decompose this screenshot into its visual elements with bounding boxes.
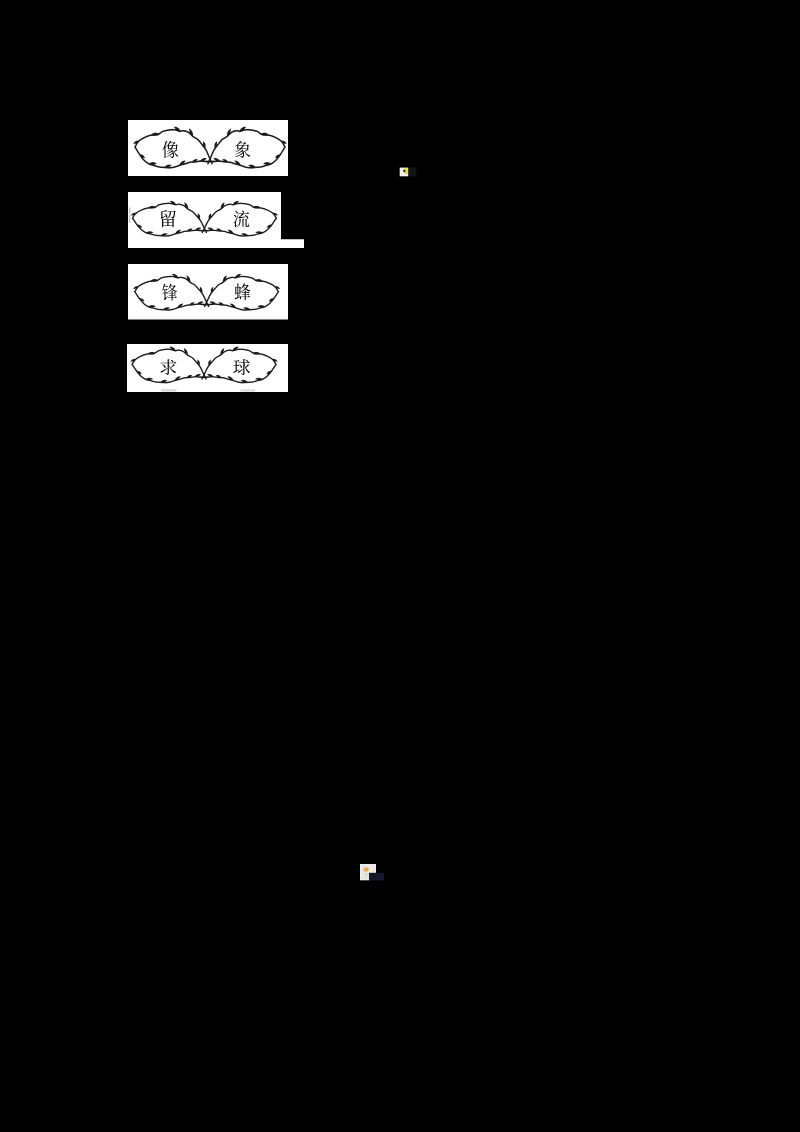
tiny inline icon: dark square bbox=[408, 168, 416, 177]
answer box 1 (white) bbox=[128, 120, 288, 176]
leaf pair 2 (two serrated leaves joined at centre V) bbox=[131, 201, 277, 236]
character 球 bbox=[233, 359, 250, 375]
character 蜂 bbox=[235, 283, 251, 300]
tiny inline icon: white square with yellow ball bbox=[400, 168, 409, 177]
faint grey sliver inside box 2 left edge bbox=[129, 208, 131, 224]
character 锋 bbox=[162, 284, 177, 301]
faint smudge under box 4 right bbox=[241, 389, 256, 391]
leaf pair 3 (two serrated leaves joined at centre V) bbox=[134, 274, 280, 310]
character 象 bbox=[235, 141, 250, 158]
answer box 3 (white) bbox=[128, 264, 288, 320]
character 流 bbox=[234, 210, 250, 227]
character 求 bbox=[160, 359, 176, 375]
faint smudge under box 4 left bbox=[161, 389, 177, 391]
character 像 bbox=[162, 141, 178, 158]
small dark navy rectangle bbox=[369, 873, 384, 881]
leaf pair 1 (two serrated leaves joined at centre V) bbox=[134, 127, 286, 168]
leaf pair 4 (two serrated leaves joined at centre V) bbox=[131, 347, 277, 383]
character 留 bbox=[161, 210, 176, 227]
answer box 4 (white) bbox=[127, 344, 288, 392]
answer box 2 (white, with lower-right strip) bbox=[128, 192, 304, 248]
small image placeholder: white square with orange blob bbox=[360, 864, 376, 880]
